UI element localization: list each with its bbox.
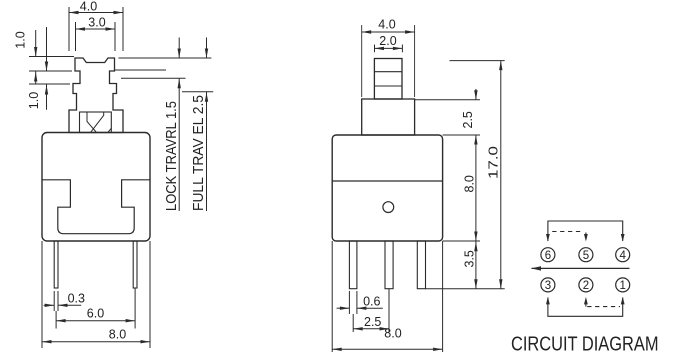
svg-text:0.6: 0.6 (363, 295, 380, 309)
svg-text:2.5: 2.5 (364, 315, 381, 329)
svg-text:2.5: 2.5 (461, 111, 475, 128)
svg-text:2.0: 2.0 (379, 34, 396, 48)
svg-text:5: 5 (583, 250, 589, 262)
svg-text:8.0: 8.0 (463, 175, 477, 192)
svg-text:4: 4 (619, 250, 626, 262)
svg-text:FULL TRAV EL 2.5: FULL TRAV EL 2.5 (191, 95, 207, 211)
svg-text:6.0: 6.0 (87, 307, 104, 321)
svg-text:3: 3 (545, 280, 551, 292)
svg-text:3.0: 3.0 (88, 16, 105, 30)
svg-text:8.0: 8.0 (384, 327, 401, 341)
svg-text:17.0: 17.0 (487, 146, 501, 179)
svg-text:2: 2 (583, 280, 589, 292)
svg-text:4.0: 4.0 (80, 0, 97, 14)
svg-text:1.0: 1.0 (27, 92, 41, 109)
svg-text:1: 1 (619, 280, 625, 292)
svg-text:0.3: 0.3 (68, 292, 85, 306)
svg-text:CIRCUIT DIAGRAM: CIRCUIT DIAGRAM (511, 334, 659, 356)
svg-text:3.5: 3.5 (463, 250, 477, 267)
svg-text:LOCK TRAVRL 1.5: LOCK TRAVRL 1.5 (164, 101, 180, 211)
svg-text:4.0: 4.0 (378, 18, 395, 32)
svg-text:8.0: 8.0 (109, 328, 126, 342)
svg-text:1.0: 1.0 (14, 31, 28, 48)
svg-text:6: 6 (545, 250, 551, 262)
